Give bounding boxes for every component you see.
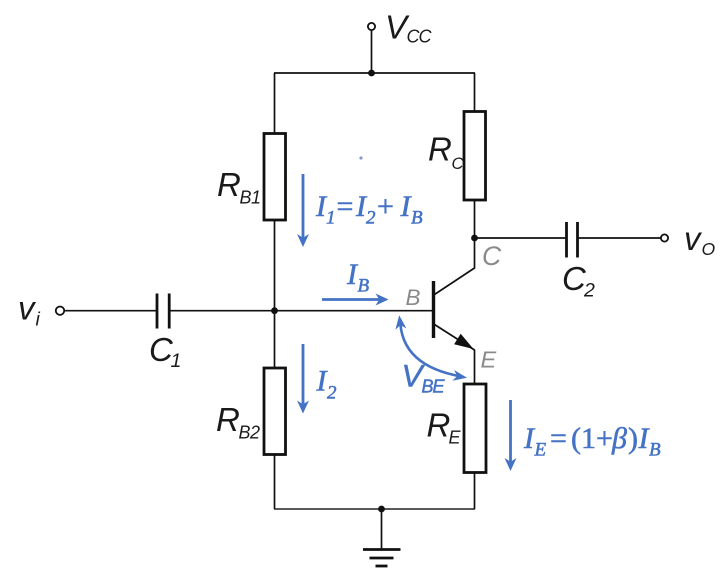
- svg-text:E: E: [534, 440, 547, 461]
- svg-text:B1: B1: [240, 188, 261, 208]
- wire right rail upper: [474, 73, 476, 112]
- label IB: [346, 258, 370, 297]
- svg-text:R: R: [428, 131, 452, 168]
- svg-text:B: B: [649, 440, 661, 461]
- transistor Q1 base bar: [432, 281, 435, 338]
- wire RE to bottom rail: [474, 473, 476, 510]
- svg-text:=: =: [550, 422, 567, 455]
- svg-text:v: v: [18, 290, 37, 327]
- wire vi to C1: [65, 310, 158, 312]
- wire left rail lower: [274, 455, 276, 510]
- wire left rail upper: [274, 73, 276, 134]
- wire ground stub: [381, 509, 383, 549]
- svg-text:1: 1: [171, 350, 182, 372]
- wire RC to node C: [474, 200, 476, 238]
- svg-text:2: 2: [366, 208, 376, 229]
- node C junction: [471, 235, 478, 242]
- wire C1 to base: [169, 310, 433, 312]
- node ground junction: [378, 506, 385, 513]
- label VBE: [402, 358, 446, 397]
- label RE: [427, 407, 462, 448]
- current arrow IE: [505, 400, 517, 471]
- svg-text:B2: B2: [239, 423, 261, 443]
- label vo: [684, 220, 716, 259]
- wire Vcc stub: [371, 30, 373, 73]
- wire left rail middle: [274, 220, 276, 368]
- label RB1: [217, 166, 261, 208]
- current arrow IB: [322, 294, 389, 306]
- svg-text:R: R: [217, 166, 241, 203]
- svg-text:E: E: [449, 428, 462, 448]
- svg-text:BE: BE: [422, 377, 446, 397]
- svg-text:2: 2: [583, 280, 595, 302]
- label I2: [316, 365, 338, 404]
- wire C2 to output: [578, 237, 662, 239]
- svg-text:B: B: [358, 276, 370, 297]
- ground: [363, 550, 401, 567]
- label C2: [562, 260, 595, 302]
- current arrow I2: [297, 344, 309, 414]
- capacitor C2: [567, 222, 578, 258]
- label RB2: [216, 401, 260, 443]
- svg-text:+: +: [377, 190, 394, 223]
- label I1=I2+IB: [315, 190, 423, 229]
- svg-text:β: β: [611, 422, 627, 455]
- svg-text:O: O: [702, 239, 716, 259]
- svg-text:B: B: [406, 285, 421, 310]
- resistor RE: [464, 384, 486, 473]
- svg-text:(1+: (1+: [571, 422, 613, 455]
- wire emitter down: [474, 350, 476, 385]
- svg-text:E: E: [481, 347, 497, 373]
- voltage arrow VBE: [395, 315, 467, 381]
- svg-text:2: 2: [327, 383, 337, 404]
- label VCC: [385, 9, 432, 47]
- terminal vi: [56, 307, 64, 315]
- label C1: [149, 331, 181, 372]
- wire top rail: [274, 72, 475, 74]
- current arrow I1: [297, 174, 309, 247]
- label RC: [428, 131, 464, 174]
- wire bottom rail: [274, 508, 475, 510]
- resistor RC: [464, 112, 486, 201]
- svg-text:C: C: [482, 241, 502, 271]
- svg-text:): ): [628, 422, 638, 455]
- svg-text:R: R: [427, 407, 451, 444]
- node junction top: [368, 70, 375, 77]
- transistor Q1 emitter lead: [435, 325, 475, 351]
- resistor RB2: [264, 368, 286, 455]
- node base junction: [271, 307, 278, 314]
- svg-text:C: C: [452, 155, 464, 173]
- svg-text:R: R: [216, 401, 240, 438]
- stray blue dot: [359, 156, 362, 159]
- wire node C to C2: [475, 237, 567, 239]
- svg-text:i: i: [36, 309, 41, 331]
- transistor Q1 collector lead: [435, 238, 475, 295]
- terminal Vcc: [368, 23, 375, 30]
- label IE=(1+beta)IB: [523, 422, 661, 461]
- svg-text:1: 1: [326, 208, 336, 229]
- svg-text:=: =: [337, 190, 354, 223]
- svg-text:v: v: [684, 220, 703, 257]
- resistor RB1: [264, 134, 286, 221]
- svg-text:CC: CC: [407, 27, 433, 47]
- capacitor C1: [157, 294, 169, 329]
- label vi: [18, 290, 41, 331]
- svg-text:B: B: [411, 208, 423, 229]
- transistor Q1 emitter arrowhead: [454, 334, 473, 349]
- terminal vo: [661, 234, 668, 241]
